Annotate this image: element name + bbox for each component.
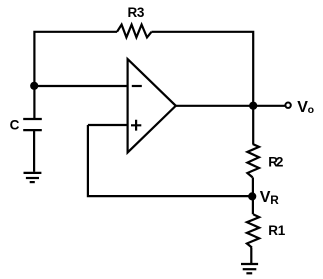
svg-text:V: V bbox=[260, 189, 271, 206]
node output junction bbox=[249, 102, 257, 110]
op-amp U1 bbox=[128, 59, 176, 152]
resistor R3 bbox=[117, 25, 152, 38]
node VR bbox=[248, 192, 256, 200]
wire output from op-amp to Vo terminal bbox=[176, 105, 285, 107]
wire feedback from non-inverting input down and across to VR bbox=[88, 125, 252, 196]
wire from R2 to R1 through VR bbox=[252, 177, 254, 214]
wire left rail and top wire to R3 left lead bbox=[34, 32, 117, 120]
label Vo bbox=[297, 99, 314, 116]
op-amp non-inverting input marker bbox=[131, 120, 141, 131]
resistor R1 bbox=[247, 214, 259, 247]
wire from C to ground bbox=[33, 131, 35, 172]
svg-text:R3: R3 bbox=[128, 5, 145, 20]
ground bbox=[241, 264, 258, 273]
svg-text:V: V bbox=[297, 99, 308, 116]
svg-text:R: R bbox=[270, 193, 279, 207]
ground bbox=[24, 173, 42, 182]
wire inverting input bbox=[34, 85, 127, 87]
svg-text:o: o bbox=[308, 104, 314, 116]
resistor R2 bbox=[247, 144, 259, 177]
wire from R1 to ground bbox=[250, 248, 252, 264]
wire top wire from R3 to right rail down to R2 bbox=[152, 32, 254, 144]
capacitor C bbox=[23, 119, 42, 130]
terminal Vo bbox=[285, 103, 290, 108]
label VR bbox=[260, 189, 280, 207]
svg-text:R2: R2 bbox=[268, 154, 283, 169]
wire non-inverting input bbox=[88, 124, 127, 126]
op-amp inverting input marker bbox=[132, 85, 142, 87]
svg-text:C: C bbox=[10, 118, 20, 133]
node junction of C and inverting input bbox=[30, 82, 38, 90]
svg-text:R1: R1 bbox=[268, 223, 285, 238]
